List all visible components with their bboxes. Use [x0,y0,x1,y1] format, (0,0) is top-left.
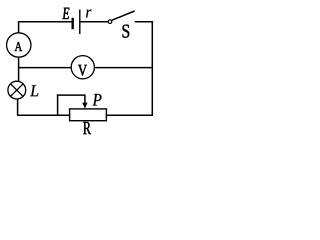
wiper top horizontal wire [57,94,85,96]
rheostat label R [83,122,91,134]
wire middle right (voltmeter to right rail) [95,67,153,69]
voltmeter V circle [71,56,94,79]
lamp L circle [8,81,26,99]
wiper arrowhead [82,103,87,109]
wire right rail vertical [151,21,153,116]
wire switch right terminal to top-right corner [135,21,153,23]
wire battery to switch pivot [80,21,108,23]
ammeter A circle [7,33,31,57]
lamp L cross diagonal 2 [11,84,24,97]
wire bottom rail right (rheostat box to right rail) [106,114,153,116]
ammeter letter A [15,42,23,51]
switch S pivot circle [108,20,112,24]
wire ammeter bottom to lamp top [18,58,20,82]
battery E,r negative plate (short thick) [71,18,73,29]
wire middle left (junction below ammeter to voltmeter) [19,67,71,69]
switch label S [123,25,130,38]
wire top-left horizontal (corner to battery negative plate) [18,21,72,23]
battery label E [62,8,69,19]
wiper arrow shaft [84,94,86,104]
switch S blade [112,11,135,20]
battery E,r positive plate (long thin) [79,10,81,35]
lamp label L [30,85,38,96]
wire bottom rail left (corner to rheostat box) [18,114,70,116]
wire top-left vertical (ammeter top to top-left corner) [18,22,20,32]
battery internal resistance label r [86,10,92,18]
wire lamp bottom to bottom-left corner [17,99,19,116]
wiper label P [93,94,102,106]
voltmeter letter V [78,65,87,76]
wiper left vertical wire [57,94,59,115]
rheostat R box [70,109,107,121]
lamp L cross diagonal 1 [11,84,24,97]
